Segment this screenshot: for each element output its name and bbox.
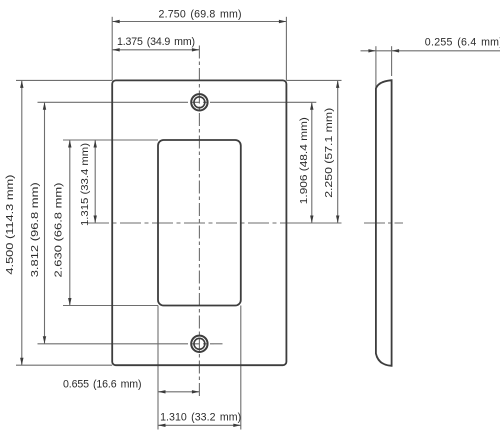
- svg-text:1.906 (48.4 mm): 1.906 (48.4 mm): [299, 117, 310, 204]
- svg-text:1.310 (33.2 mm): 1.310 (33.2 mm): [160, 411, 241, 423]
- svg-text:1.375 (34.9 mm): 1.375 (34.9 mm): [117, 36, 195, 48]
- svg-text:2.630 (66.8 mm): 2.630 (66.8 mm): [53, 183, 64, 278]
- svg-text:3.812 (96.8 mm): 3.812 (96.8 mm): [30, 182, 41, 277]
- svg-text:1.315 (33.4 mm): 1.315 (33.4 mm): [80, 143, 91, 226]
- svg-text:2.250 (57.1 mm): 2.250 (57.1 mm): [324, 108, 335, 198]
- svg-text:4.500 (114.3 mm): 4.500 (114.3 mm): [5, 175, 16, 275]
- svg-text:2.750 (69.8 mm): 2.750 (69.8 mm): [159, 9, 242, 21]
- svg-text:0.255 (6.4 mm): 0.255 (6.4 mm): [425, 37, 500, 49]
- svg-text:0.655 (16.6 mm): 0.655 (16.6 mm): [63, 378, 142, 390]
